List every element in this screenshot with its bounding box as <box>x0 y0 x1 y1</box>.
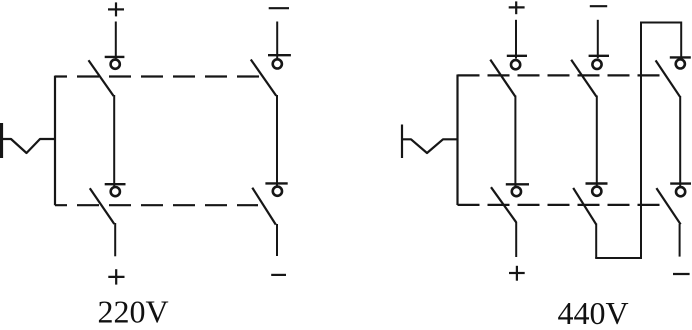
operating handle wall anchor <box>0 123 3 158</box>
knife switch S2 (fixed jaw, contact circle, open blade) <box>90 184 126 224</box>
wire: − lead down to switch S7 <box>597 20 599 59</box>
wire: S7 pivot down to switch S8 contact <box>596 96 598 187</box>
terminal − (top of column 2) <box>590 5 607 7</box>
knife switch S3 (fixed jaw, contact circle, open blade) <box>251 55 291 95</box>
wire: − lead down to switch S3 <box>276 22 278 59</box>
terminal + (top of column 1) <box>509 1 525 14</box>
wire: + lead down to switch S1 <box>115 22 117 59</box>
knife switch S9 (fixed jaw, contact circle, open blade) <box>656 57 691 96</box>
mechanical linkage bar, top (dashed, 440V) <box>458 74 667 76</box>
terminal + (bottom of left column) <box>108 269 124 284</box>
svg-text:220V: 220V <box>98 294 169 325</box>
terminal + (top of left column) <box>108 2 124 16</box>
wire: series link, long vertical riser <box>640 23 642 260</box>
operating handle linkage (zigzag) <box>0 139 56 153</box>
wire: S10 pivot down to bottom − terminal <box>679 224 681 257</box>
wire: series link, S8 pivot down <box>595 224 597 259</box>
knife switch S4 (fixed jaw, contact circle, open blade) <box>252 183 287 224</box>
terminal − (bottom of right column) <box>271 274 286 276</box>
terminal − (bottom of column 3) <box>673 273 690 275</box>
mechanical linkage bar, bottom (dashed) <box>55 204 258 206</box>
knife switch S10 (fixed jaw, contact circle, open blade) <box>656 184 691 225</box>
knife switch S6 (fixed jaw, contact circle, open blade) <box>491 184 529 222</box>
terminal + (bottom of column 1) <box>509 266 525 281</box>
knife switch S1 (fixed jaw, contact circle, open blade) <box>89 57 125 96</box>
wire: series link, bottom horizontal run <box>595 257 642 259</box>
svg-text:440V: 440V <box>558 295 629 325</box>
linkage bus wire (vertical, 440V) <box>456 75 458 206</box>
wire: S9 pivot down to switch S10 contact <box>679 96 681 186</box>
wire: S2 pivot down to bottom + terminal <box>114 223 116 256</box>
knife switch S7 (fixed jaw, contact circle, open blade) <box>571 56 609 97</box>
knife switch S8 (fixed jaw, contact circle, open blade) <box>573 184 607 225</box>
linkage bus wire (vertical) <box>54 76 56 206</box>
mechanical linkage bar, bottom (dashed, 440V) <box>458 204 663 206</box>
operating handle wall anchor (440V) <box>401 125 403 159</box>
mechanical linkage bar, top (dashed) <box>55 75 262 77</box>
wire: S5 pivot down to switch S6 contact <box>514 96 516 188</box>
wire: series link, top horizontal run <box>640 22 681 24</box>
operating handle linkage (zigzag, 440V) <box>402 139 458 153</box>
knife switch S5 (fixed jaw, contact circle, open blade) <box>490 56 527 97</box>
wire: S1 pivot down to switch S2 contact <box>113 95 115 187</box>
wire: series link, drop to switch S9 contact <box>680 22 682 58</box>
terminal − (top of right column) <box>269 7 289 9</box>
wire: S6 pivot down to bottom + terminal <box>515 222 517 257</box>
wire: S4 pivot down to bottom − terminal <box>276 224 278 256</box>
wire: S3 pivot down to switch S4 contact <box>276 95 278 187</box>
wire: + lead down to switch S5 <box>515 20 517 59</box>
